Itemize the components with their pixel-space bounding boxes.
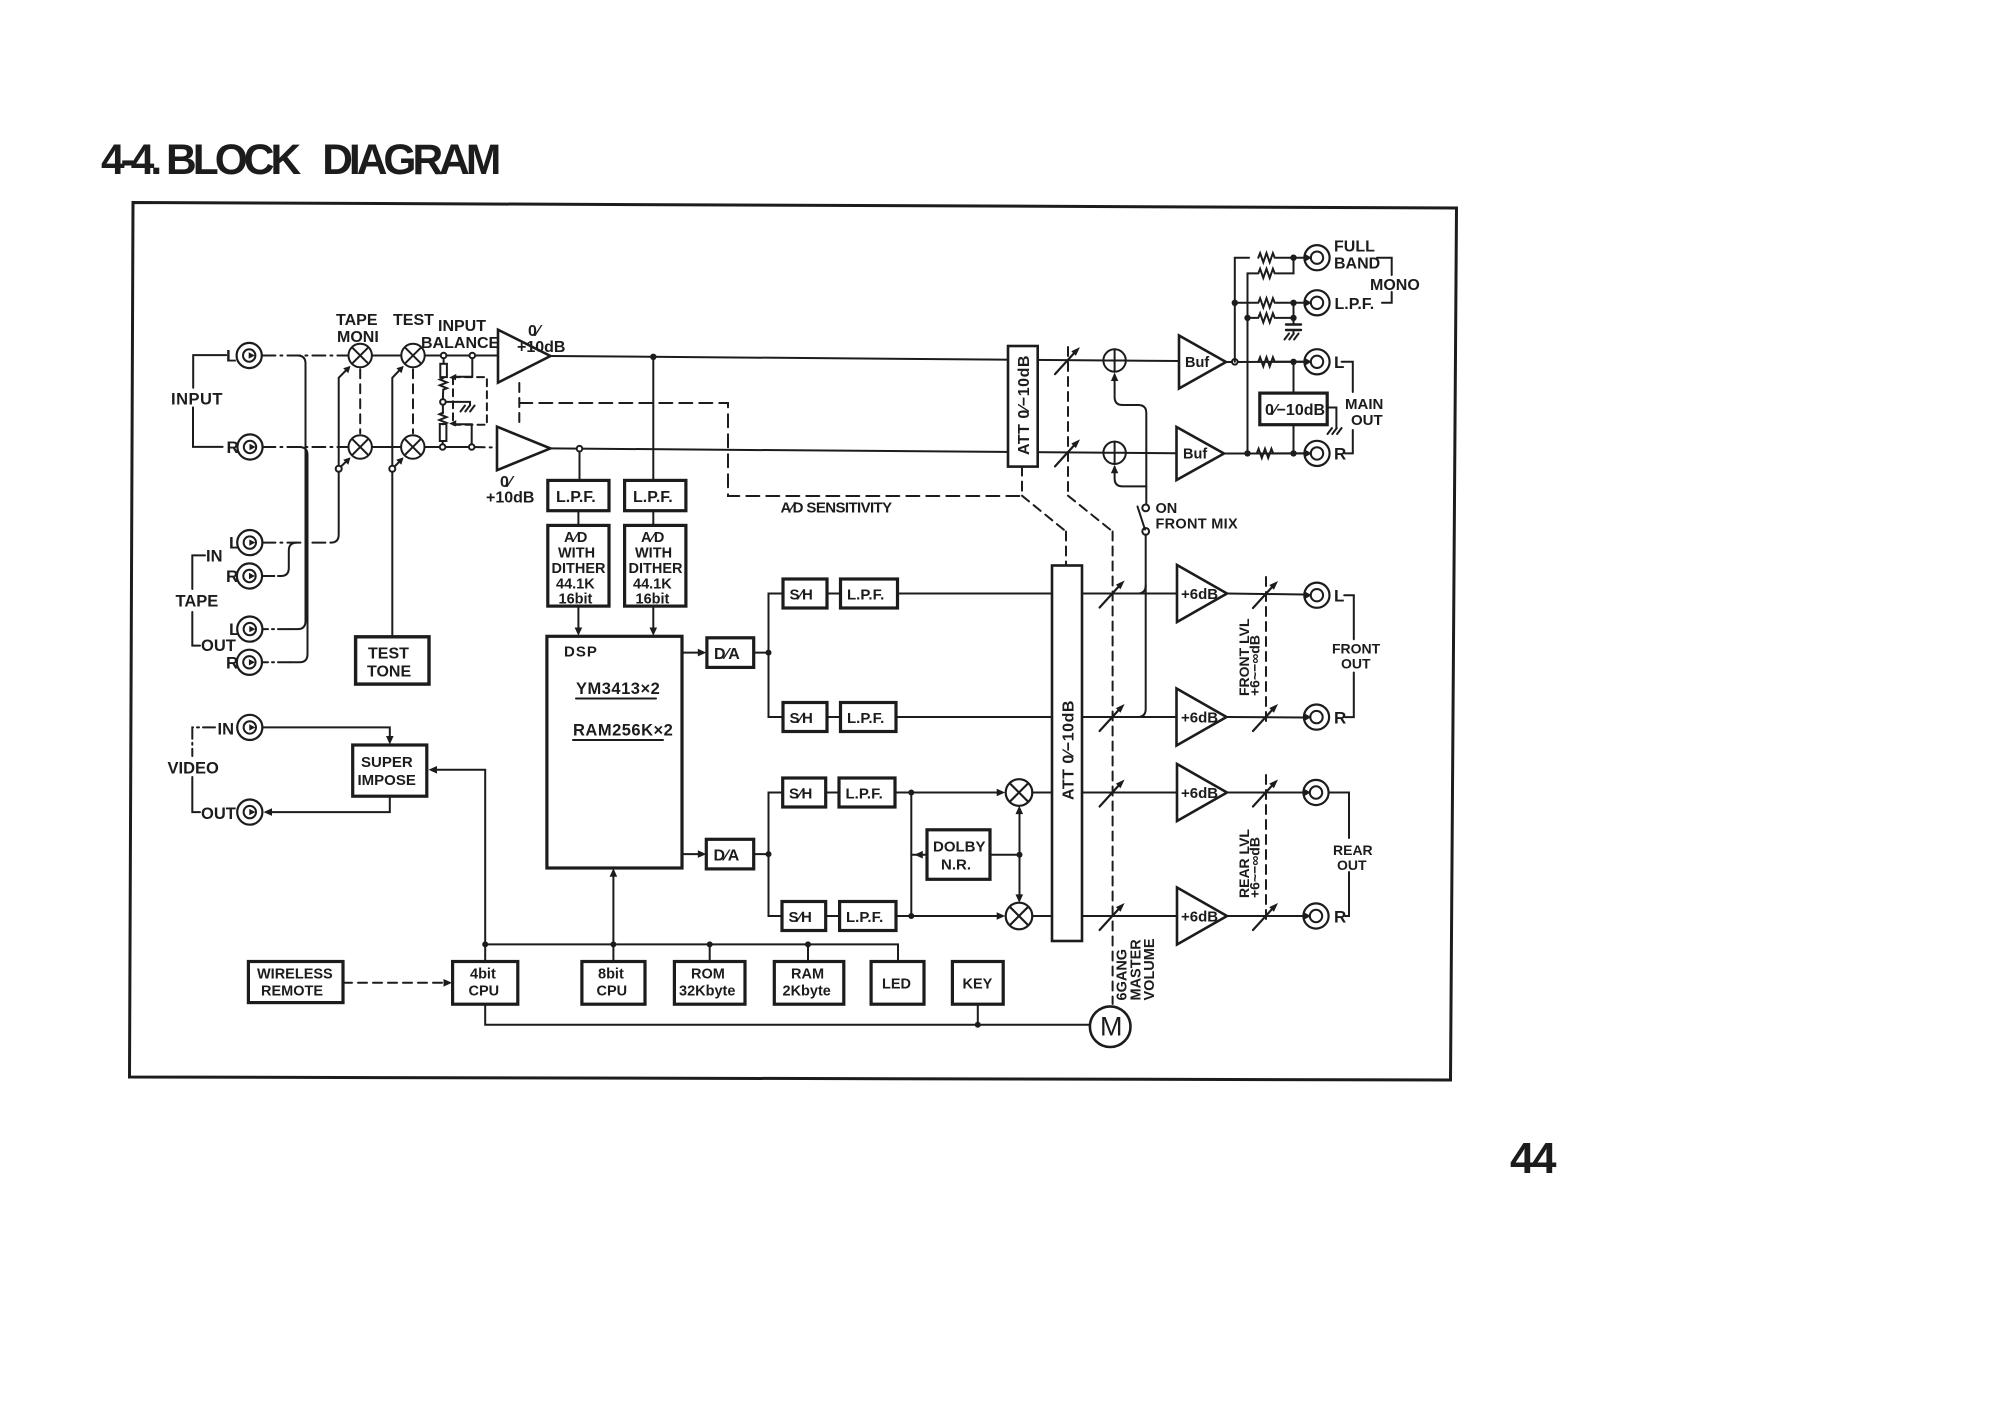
svg-text:M: M: [1100, 1012, 1123, 1042]
svg-text:OUT: OUT: [1341, 656, 1371, 672]
wire LPF RR to mult: [896, 915, 1001, 917]
gang dashed FRONT LVL: [1265, 577, 1267, 726]
svg-text:CPU: CPU: [469, 984, 500, 1000]
box side ground wire: [1327, 408, 1336, 429]
jack VIDEO IN: [237, 715, 262, 740]
wire video in to super impose: [262, 727, 389, 741]
wire INPUT L row (jack to amp): [262, 355, 348, 357]
front mix feed to summer R: [1115, 467, 1147, 486]
wire riser band2: [1248, 273, 1250, 453]
curve tap front L: [1138, 586, 1146, 594]
svg-text:+6~−∞dB: +6~−∞dB: [1247, 635, 1263, 696]
jack VIDEO OUT: [237, 800, 262, 825]
wire mult RR to ATT2: [1032, 915, 1052, 917]
node dolby in RR: [908, 913, 914, 919]
svg-text:A∕D: A∕D: [564, 530, 587, 546]
svg-text:MAIN: MAIN: [1345, 396, 1383, 413]
amp Buf R: [1177, 427, 1225, 480]
svg-text:L.P.F.: L.P.F.: [847, 587, 884, 604]
balance resistor chain upper: [443, 358, 445, 364]
jack TAPE IN L: [237, 530, 262, 555]
gang dashed TEST: [412, 369, 414, 433]
jack FULL BAND: [1304, 245, 1329, 270]
svg-text:32Kbyte: 32Kbyte: [679, 984, 735, 1000]
jack FRONT OUT L: [1304, 583, 1329, 608]
mixer switch TEST L: [401, 344, 424, 367]
node bus rom: [707, 941, 713, 947]
balance wiper upper: [455, 358, 472, 376]
wire box to R row: [1293, 425, 1295, 454]
box DOLBY N.R.: [927, 830, 990, 880]
svg-text:WIRELESS: WIRELESS: [257, 967, 333, 983]
attenuator arrow rear R (level): [1253, 903, 1278, 930]
svg-text:RAM256K×2: RAM256K×2: [573, 722, 673, 740]
wire TAPE IN L to monitor switch: [262, 542, 330, 544]
svg-text:FULL: FULL: [1334, 239, 1375, 256]
node key bus: [975, 1022, 981, 1028]
svg-text:+6dB: +6dB: [1181, 586, 1218, 603]
box LED: [871, 962, 924, 1005]
node main L to LPF2: [650, 354, 656, 360]
wire buf L out: [1226, 361, 1305, 363]
arrowhead TAPE MONI L lever: [343, 366, 350, 373]
svg-text:DOLBY: DOLBY: [933, 839, 986, 856]
wire node to LPF2: [652, 357, 654, 481]
wire bus to RAM: [807, 944, 809, 961]
svg-text:N.R.: N.R.: [941, 857, 971, 874]
dashed box balance gang: [453, 377, 487, 425]
amp Buf L: [1179, 336, 1226, 389]
svg-text:MONI: MONI: [337, 329, 379, 346]
jack MAIN OUT L: [1304, 349, 1329, 374]
node bus ram: [805, 941, 811, 947]
box L.P.F. (A/D left): [548, 480, 609, 510]
wire dolby out: [990, 854, 1020, 856]
arrowhead TEST L lever: [396, 366, 403, 373]
box 0/-10dB (main out): [1260, 393, 1327, 425]
svg-text:DITHER: DITHER: [629, 561, 684, 577]
svg-text:MONO: MONO: [1370, 277, 1420, 294]
node main L out: [1290, 359, 1296, 365]
svg-text:BAND: BAND: [1334, 256, 1380, 273]
wire INPUT R row (jack to amp): [262, 446, 348, 448]
jack L.P.F. (mono): [1304, 290, 1329, 315]
balance resistor chain lower: [442, 405, 444, 414]
box S/H front L: [783, 579, 827, 608]
ground (0/-10dB): [1328, 428, 1342, 434]
amp +6dB rear L: [1177, 764, 1227, 821]
wire D/A1 to S/H FL FR: [769, 594, 784, 718]
balance center tap to ground: [446, 402, 470, 406]
box L.P.F. front L: [841, 579, 898, 608]
node main R out: [1290, 450, 1296, 456]
attenuator arrow rear L (level): [1253, 780, 1278, 807]
node balance L left: [441, 353, 447, 359]
box L.P.F. rear L: [839, 778, 895, 807]
svg-text:YM3413×2: YM3413×2: [576, 680, 660, 698]
gang dashed master volume (lower): [1112, 532, 1114, 1005]
svg-text:L: L: [229, 534, 239, 553]
amp +6dB rear R: [1177, 888, 1227, 945]
attenuator arrow front R (master): [1100, 704, 1125, 731]
balance wiper lower: [455, 424, 472, 444]
node full band: [1290, 255, 1296, 261]
box 8bit CPU: [582, 962, 645, 1005]
box KEY: [952, 962, 1003, 1005]
svg-text:ATT 0∕−10dB: ATT 0∕−10dB: [1061, 700, 1078, 800]
wire dolby input riser: [910, 793, 912, 917]
mixer switch TEST R: [401, 435, 424, 458]
gang dashed REAR LVL: [1265, 775, 1267, 925]
svg-text:A∕D SENSITIVITY: A∕D SENSITIVITY: [781, 500, 893, 517]
front mix feed to summer L: [1115, 375, 1147, 504]
svg-text:D∕A: D∕A: [714, 646, 740, 663]
svg-text:TAPE: TAPE: [336, 312, 378, 329]
wire mult RL to ATT2: [1032, 792, 1052, 794]
amp A1 0/+10dB (L): [498, 330, 550, 383]
wire super impose to video out: [267, 796, 390, 812]
svg-text:S∕H: S∕H: [789, 786, 812, 803]
attenuator arrow front R (level): [1253, 704, 1278, 731]
jack FRONT OUT R: [1304, 705, 1329, 730]
wire INPUT R branch to TAPE OUT R: [290, 447, 308, 662]
wire DSP to D/A2: [682, 853, 702, 855]
svg-text:IN: IN: [206, 548, 223, 566]
wire 8bit cpu to DSP: [612, 871, 614, 962]
svg-text:LED: LED: [882, 977, 911, 993]
svg-text:R: R: [227, 438, 239, 457]
svg-text:R: R: [226, 567, 238, 586]
ground (mono lpf): [1285, 334, 1299, 340]
node contact TEST R lever: [389, 466, 395, 472]
svg-text:R: R: [226, 653, 238, 672]
wire D/A1 out: [754, 652, 769, 654]
amp +6dB front L: [1177, 565, 1227, 622]
svg-text:KEY: KEY: [963, 977, 993, 993]
wire KEY down: [977, 1004, 979, 1025]
svg-text:S∕H: S∕H: [790, 710, 813, 727]
dashed A/D sensitivity: [519, 403, 1022, 496]
amp A2 0/+10dB (R): [497, 427, 550, 471]
wire LPF1 to AD1: [577, 511, 579, 526]
svg-text:TONE: TONE: [367, 664, 411, 681]
jack INPUT L: [237, 343, 262, 368]
svg-text:L.P.F.: L.P.F.: [847, 710, 884, 727]
mixer switch TAPE MONI L: [349, 344, 372, 367]
gang dashed TAPE MONI: [359, 369, 361, 433]
node dolby out: [1017, 852, 1023, 858]
bracket FRONT OUT: [1344, 595, 1354, 639]
box DSP: [547, 636, 682, 868]
summer main L: [1103, 349, 1125, 371]
svg-text:4-4. BLOCK DIAGRAM: 4-4. BLOCK DIAGRAM: [101, 137, 499, 184]
TAPE bracket: [192, 555, 205, 589]
box 4bit CPU: [453, 962, 518, 1005]
svg-text:2Kbyte: 2Kbyte: [783, 984, 831, 1000]
svg-text:S∕H: S∕H: [790, 587, 813, 604]
svg-text:SUPER: SUPER: [361, 754, 413, 771]
wire buf R out: [1224, 452, 1305, 454]
node D/A1: [766, 650, 772, 656]
svg-text:BALANCE: BALANCE: [421, 335, 500, 352]
wire main R row (amp2 to buf2): [550, 448, 1176, 453]
key bus wire: [485, 1004, 1090, 1025]
node mono lpf right: [1290, 300, 1296, 306]
box D/A lower: [706, 839, 753, 869]
svg-text:R: R: [1334, 908, 1346, 927]
mixer switch TAPE MONI R: [349, 435, 372, 458]
svg-text:IMPOSE: IMPOSE: [358, 772, 416, 789]
svg-text:ON: ON: [1156, 501, 1178, 517]
jack MAIN OUT R: [1304, 441, 1329, 466]
svg-text:S∕H: S∕H: [789, 909, 812, 926]
node bus 4bit: [482, 941, 488, 947]
node balance L right: [470, 353, 476, 359]
wire 4bit cpu to super impose: [432, 770, 485, 962]
jack REAR OUT R: [1303, 903, 1328, 928]
wire LPF2 to AD2: [652, 511, 654, 526]
jack INPUT R: [237, 434, 262, 459]
box L.P.F. (A/D right): [625, 480, 686, 510]
diagram border frame: [130, 203, 1457, 1081]
attenuator arrow main L: [1055, 347, 1080, 374]
svg-text:VIDEO: VIDEO: [168, 760, 220, 778]
svg-text:L.P.F.: L.P.F.: [556, 489, 596, 506]
svg-text:+6dB: +6dB: [1181, 710, 1218, 727]
jack TAPE IN R: [237, 563, 262, 588]
wire dolby to mult RL: [1019, 809, 1021, 855]
svg-text:OUT: OUT: [1351, 412, 1383, 429]
lever TEST R: [395, 459, 402, 466]
jack TAPE OUT R: [237, 650, 262, 675]
box ATT 0/-10dB (lower): [1052, 566, 1082, 942]
node buf R out: [1244, 450, 1250, 456]
switch FRONT MIX: [1142, 505, 1149, 512]
attenuator arrow rear L (master): [1100, 780, 1125, 807]
box D/A upper: [707, 638, 754, 668]
svg-text:REAR: REAR: [1333, 842, 1373, 858]
multiplier rear L: [1006, 779, 1033, 806]
INPUT bracket: [193, 355, 226, 388]
resistor band2: [1249, 272, 1257, 274]
svg-text:REMOTE: REMOTE: [261, 984, 323, 1000]
resistor main R out: [1257, 449, 1273, 458]
svg-text:R: R: [1334, 709, 1346, 728]
svg-text:IN: IN: [218, 721, 235, 739]
wire riser full band: [1235, 258, 1249, 362]
wire AD2 to DSP: [652, 606, 654, 632]
svg-text:FRONT: FRONT: [1332, 641, 1381, 657]
node bus 8bit: [610, 941, 616, 947]
box L.P.F. front R: [841, 703, 897, 732]
gang dashed master volume (upper): [1067, 347, 1069, 496]
svg-text:+6~−∞dB: +6~−∞dB: [1247, 837, 1263, 898]
node D/A2: [766, 851, 772, 857]
amp +6dB front R: [1177, 689, 1227, 746]
svg-text:ATT 0∕−10dB: ATT 0∕−10dB: [1016, 355, 1033, 455]
svg-text:DITHER: DITHER: [552, 561, 607, 577]
svg-text:L.P.F.: L.P.F.: [846, 909, 883, 926]
bracket MONO: [1377, 258, 1392, 275]
svg-text:WITH: WITH: [558, 546, 595, 562]
node lpf r2 left: [1244, 315, 1250, 321]
lever TAPE MONI R: [341, 459, 349, 467]
box ROM 32Kbyte: [674, 962, 745, 1005]
wires ATT2 out rows: [1082, 593, 1177, 595]
capacitor (mono lpf): [1286, 323, 1301, 325]
svg-text:44.1K: 44.1K: [633, 577, 672, 593]
box A/D WITH DITHER 44.1K 16bit (left): [548, 525, 609, 606]
attenuator arrow main R: [1055, 439, 1080, 466]
svg-text:44: 44: [1510, 1134, 1557, 1183]
resistor full band: [1258, 253, 1274, 262]
svg-text:INPUT: INPUT: [438, 318, 486, 335]
svg-text:RAM: RAM: [791, 967, 824, 983]
wire LPF RL to mult: [895, 792, 1001, 794]
node balance R right: [469, 444, 475, 450]
wire D/A2 to S/H RL RR: [769, 793, 784, 917]
wire main L row (amp1 to buf1): [550, 356, 1179, 361]
wire LPF FL to ATT2: [898, 593, 1053, 595]
wire S/H to LPF rear R: [826, 915, 840, 917]
svg-text:L: L: [1334, 587, 1344, 606]
VIDEO bracket: [192, 727, 215, 756]
svg-text:16bit: 16bit: [559, 592, 593, 608]
node buf L out: [1232, 359, 1238, 365]
box TEST TONE: [356, 637, 429, 684]
jack REAR OUT L: [1303, 780, 1328, 805]
svg-text:OUT: OUT: [1337, 857, 1367, 873]
svg-text:DSP: DSP: [564, 644, 598, 661]
box A/D WITH DITHER 44.1K 16bit (right): [625, 525, 686, 606]
node main R to LPF1: [577, 446, 583, 452]
wire LPF FR to ATT2: [896, 716, 1052, 718]
box S/H rear R: [782, 902, 826, 931]
svg-text:TAPE: TAPE: [176, 593, 219, 611]
node balance mid: [440, 399, 446, 405]
svg-text:ROM: ROM: [691, 967, 725, 983]
svg-text:+6dB: +6dB: [1181, 909, 1218, 926]
box S/H rear L: [783, 778, 826, 807]
svg-text:44.1K: 44.1K: [556, 577, 595, 593]
svg-text:L: L: [226, 347, 236, 366]
jack TAPE OUT L: [237, 617, 262, 642]
wire lpf node down to capacitor: [1293, 303, 1295, 324]
wire INPUT L branch to TAPE OUT L: [290, 356, 306, 630]
attenuator arrow rear R (master): [1100, 903, 1125, 930]
svg-text:FRONT MIX: FRONT MIX: [1156, 517, 1238, 533]
wire dolby to mult RR: [1019, 855, 1021, 900]
cpu bus wire: [485, 944, 898, 961]
wire bus to ROM: [709, 944, 711, 961]
wire S/H to LPF front R: [827, 716, 841, 718]
multiplier rear R: [1006, 903, 1033, 930]
svg-text:4bit: 4bit: [470, 967, 496, 983]
svg-text:TEST: TEST: [368, 646, 409, 663]
resistor lpf r2: [1248, 317, 1258, 319]
svg-text:Buf: Buf: [1183, 447, 1207, 463]
svg-text:OUT: OUT: [201, 805, 236, 823]
svg-text:L.P.F.: L.P.F.: [1335, 296, 1375, 313]
box L.P.F. rear R: [840, 902, 896, 931]
resistor main L out: [1258, 357, 1274, 366]
node lpf r2 right: [1290, 315, 1296, 321]
wire DSP to D/A1: [682, 652, 702, 654]
bracket MAIN OUT: [1342, 362, 1353, 392]
ground (balance): [461, 406, 475, 412]
node balance R left: [440, 444, 446, 450]
svg-text:D∕A: D∕A: [714, 848, 740, 865]
wire node to LPF1: [579, 452, 581, 481]
attenuator arrow front L (master): [1100, 581, 1125, 608]
box S/H front R: [783, 703, 827, 732]
svg-text:TEST: TEST: [393, 312, 434, 329]
box ATT 0/-10dB (main): [1008, 346, 1038, 467]
svg-text:L.P.F.: L.P.F.: [846, 786, 883, 803]
dashed wire wireless to 4bit cpu: [343, 982, 448, 984]
summer main R: [1103, 442, 1125, 464]
wire switch down to front rows: [1138, 535, 1146, 717]
box RAM 2Kbyte: [774, 962, 844, 1005]
svg-text:CPU: CPU: [597, 984, 628, 1000]
node mono lpf left: [1232, 300, 1238, 306]
node dolby in RL: [908, 790, 914, 796]
dashed ATT control link: [1021, 467, 1023, 496]
svg-text:+6dB: +6dB: [1181, 785, 1218, 802]
attenuator arrow front L (level): [1253, 581, 1278, 608]
svg-text:16bit: 16bit: [636, 592, 670, 608]
wire TAPE IN R joins tape-in line: [262, 575, 278, 577]
svg-text:0∕−10dB: 0∕−10dB: [1265, 402, 1325, 419]
svg-text:INPUT: INPUT: [171, 391, 223, 409]
node contact TAPE MONI R lever: [336, 466, 342, 472]
box WIRELESS REMOTE: [248, 962, 343, 1003]
svg-text:8bit: 8bit: [598, 967, 624, 983]
svg-text:VOLUME: VOLUME: [1142, 938, 1158, 1000]
svg-text:+10dB: +10dB: [517, 339, 565, 356]
wire TEST TONE to test switch: [392, 368, 402, 637]
svg-text:L.P.F.: L.P.F.: [633, 489, 673, 506]
wire band2 up: [1276, 258, 1294, 274]
svg-text:Buf: Buf: [1185, 355, 1209, 371]
wire D/A2 out: [754, 853, 769, 855]
wires +6dB outs: [1227, 594, 1304, 595]
resistor mono lpf: [1235, 302, 1257, 304]
svg-text:OUT: OUT: [201, 637, 236, 655]
box SUPER IMPOSE: [353, 745, 427, 796]
wire S/H to LPF rear L: [826, 792, 839, 794]
svg-text:A∕D: A∕D: [641, 530, 664, 546]
motor M (master volume): [1090, 1006, 1131, 1047]
wire AD1 to DSP: [577, 606, 579, 632]
wire to 0/-10dB box: [1293, 362, 1295, 393]
wire S/H to LPF front L: [827, 593, 841, 595]
svg-text:+10dB: +10dB: [486, 490, 534, 507]
bracket REAR OUT: [1330, 793, 1349, 839]
svg-text:WITH: WITH: [635, 546, 672, 562]
